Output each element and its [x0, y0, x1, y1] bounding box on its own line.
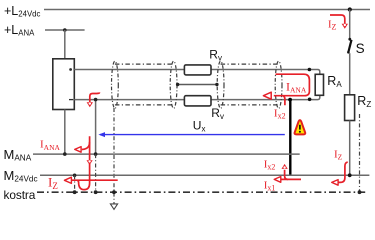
node measuring lead top [288, 98, 292, 102]
warning triangle [295, 120, 306, 134]
cable 1 shield bottom dash-dot [115, 104, 174, 106]
cable 2 right shield ellipse [275, 61, 282, 108]
wire bottom (-) conductor left segment [74, 99, 184, 101]
bond MANA to kostra dash-dot [95, 154, 97, 192]
current arrow Ix1 left [274, 177, 301, 183]
wire +LANA to transmitter top [64, 30, 66, 59]
current arrow IZ top [330, 15, 348, 29]
node MANA x64.8 [63, 152, 67, 156]
switch S blade [348, 40, 351, 53]
current branch Ix2 stub [283, 96, 285, 106]
wire rail to switch [349, 10, 351, 39]
svg-text:S: S [356, 41, 365, 56]
bond RZ area to kostra dash-dot [359, 114, 361, 192]
current loop IANA at RA [263, 74, 309, 99]
transmitter box U1 [53, 59, 75, 110]
node kostra x74.6 [73, 190, 77, 194]
cable 2 shield top dash-dot [221, 63, 279, 65]
node M24Vdc x74.6 [73, 174, 77, 178]
switch S bottom blob [347, 51, 350, 54]
resistor Rv bottom [184, 96, 211, 106]
current arrow IZ bottom left [64, 177, 117, 183]
node kostra x359.5 [358, 190, 362, 194]
plus terminal mark [69, 68, 72, 71]
resistor Rv top [184, 65, 211, 75]
wire RZ to M24Vdc [349, 121, 351, 176]
wire bottom (-) conductor right segment from RA [211, 95, 320, 99]
node MANA x95.6 [94, 152, 98, 156]
node minus conductor junction [94, 98, 98, 102]
shield drain dash-dot to ground [113, 108, 115, 204]
wire top (+) conductor left segment [74, 69, 184, 71]
node top wire at RA loop [308, 68, 312, 72]
switch S contact dot [348, 38, 351, 41]
resistor RZ [345, 95, 355, 121]
net +LANA stub [45, 29, 85, 31]
current arrow Ix2 up at M24Vdc [282, 164, 289, 180]
current arrow at transmitter minus [87, 92, 100, 107]
node bottom wire at RA loop [308, 98, 312, 102]
node kostra x95.6 [94, 190, 98, 194]
node shield right [215, 83, 218, 86]
node kostra x114 [112, 190, 116, 194]
wire minus conductor to MANA [95, 100, 97, 155]
net M24Vdc [40, 174, 369, 176]
cable 1 shield top dash-dot [115, 63, 174, 65]
minus terminal mark [69, 99, 73, 101]
cable 2 left shield ellipse [217, 61, 224, 108]
net +L24Vdc rail [44, 9, 370, 11]
wire switch to RZ [349, 53, 351, 95]
resistor RA [315, 74, 323, 95]
wire top (+) conductor right segment to RA [211, 70, 320, 75]
current arrow IANA down at MANA [77, 136, 92, 189]
cable 1 left shield ellipse [112, 61, 119, 108]
voltage Ux blue arrow [98, 132, 284, 137]
bond M24Vdc to kostra dash-dot [74, 175, 76, 192]
current arrow IZ bottom right [332, 162, 348, 185]
measuring lead thick wire [289, 100, 291, 176]
ground symbol [110, 204, 117, 210]
net MANA [33, 153, 300, 155]
net kostra dash-dot [37, 191, 366, 193]
wire transmitter bottom to MANA [64, 110, 66, 155]
node M24Vdc at RZ [348, 173, 352, 177]
node on +LANA [63, 28, 67, 32]
cable 2 shield bottom dash-dot [221, 104, 279, 106]
node shield left [176, 83, 179, 86]
current hook IANA to left [75, 142, 90, 152]
shield interconnect wire [177, 84, 217, 86]
cable 1 right shield ellipse [170, 61, 177, 108]
node top rail to switch [348, 7, 352, 11]
svg-text:kostra: kostra [4, 188, 36, 202]
